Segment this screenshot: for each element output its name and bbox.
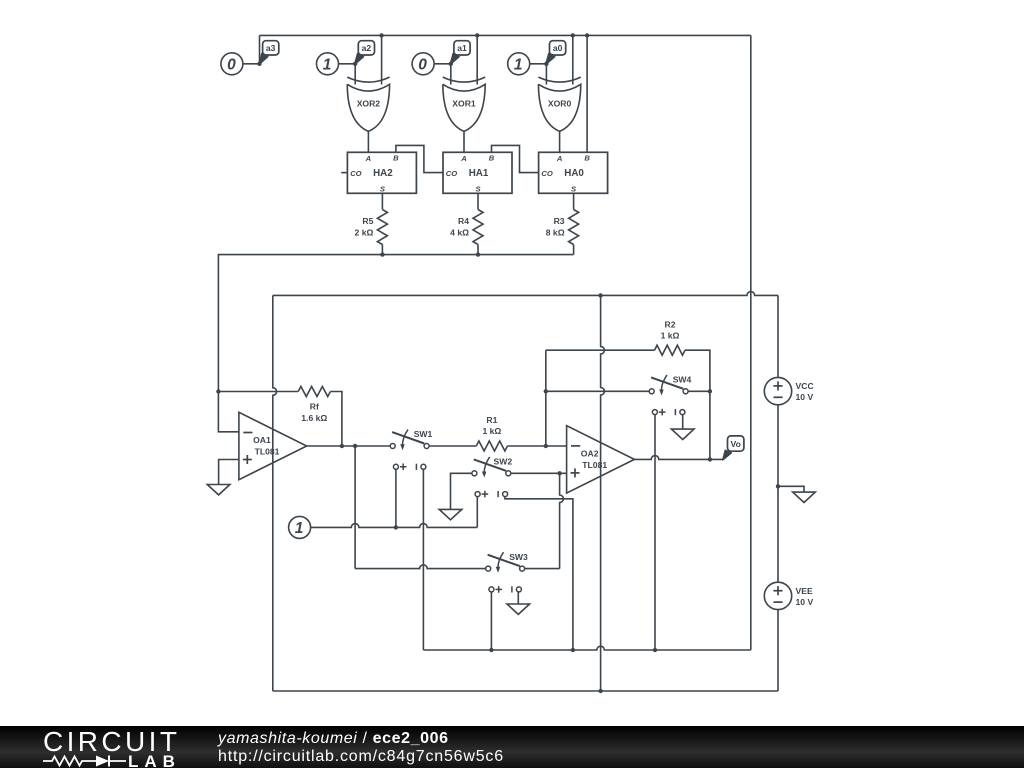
junction a2 <box>353 62 357 66</box>
junction bus-XOR0 <box>571 33 575 37</box>
xor gate XOR2 <box>347 77 389 131</box>
wire SW2 plus control <box>476 496 478 527</box>
wire HA2.CO stub <box>341 172 347 174</box>
wire logic-1 row <box>310 524 477 528</box>
wire OA1out to SW3 <box>355 446 486 569</box>
junction R4-bus <box>476 252 480 256</box>
junction R1-feedback <box>544 444 548 448</box>
switch SW1 <box>390 429 432 470</box>
svg-text:a0: a0 <box>553 43 563 53</box>
switch SW4 <box>649 375 691 416</box>
wire XOR2 output <box>367 131 369 152</box>
wire OA1 noninverting to ground <box>219 460 239 485</box>
junction SW1ctrl-1row <box>394 525 398 529</box>
junction Vo node <box>708 457 712 461</box>
switch SW3 <box>486 552 528 593</box>
svg-text:1: 1 <box>323 56 332 73</box>
wire SW1 plus control <box>395 469 397 527</box>
node a2 flag <box>355 41 375 65</box>
svg-text:TL081: TL081 <box>255 447 280 457</box>
resistor R1 1k <box>476 415 507 451</box>
svg-text:A: A <box>460 154 466 163</box>
svg-text:SW1: SW1 <box>414 429 433 439</box>
svg-text:B: B <box>489 154 495 163</box>
op-amp OA1 <box>239 412 307 479</box>
resistor R5 2 k&#937; <box>355 210 388 245</box>
wire OA1 output row <box>307 445 391 447</box>
ground SW2 left <box>439 509 462 519</box>
svg-text:CO: CO <box>446 169 457 178</box>
wire XOR0 input B drop <box>572 35 574 84</box>
wire HA1.B to HA0.CO <box>492 145 539 172</box>
half-adder HA2 <box>347 152 416 193</box>
svg-text:8 kΩ: 8 kΩ <box>546 228 565 238</box>
wire control bus <box>423 646 750 650</box>
wire R5 bottom lead <box>381 245 383 255</box>
node a3 flag <box>259 41 279 65</box>
ground supply midpoint <box>793 492 816 502</box>
node a0 flag <box>546 41 566 65</box>
junction R2-SW4 <box>708 389 712 393</box>
svg-text:R4: R4 <box>458 216 469 226</box>
wire a3 source lead <box>243 63 260 65</box>
junction a0 <box>544 62 548 66</box>
junction R5-bus <box>380 252 384 256</box>
source VEE 10V <box>764 582 813 609</box>
resistor R3 8 k&#937; <box>546 210 579 245</box>
junction OA1 inverting node <box>216 389 220 393</box>
svg-text:a1: a1 <box>457 43 467 53</box>
wire XOR0 input A drop <box>545 64 547 85</box>
source V_a2 value 1 <box>317 53 339 75</box>
wire HA0.B to bus <box>586 35 588 152</box>
ground OA1 noninverting <box>207 485 230 495</box>
svg-text:XOR0: XOR0 <box>548 99 572 109</box>
svg-text:SW4: SW4 <box>673 375 692 385</box>
wire Rf right lead <box>330 392 342 447</box>
svg-text:a3: a3 <box>266 43 276 53</box>
wire SW4 left lead <box>546 390 649 392</box>
junction bus-XOR2 <box>379 33 383 37</box>
wire R4 bottom lead <box>477 245 479 255</box>
svg-text:A: A <box>365 154 371 163</box>
junction OA2 noninverting <box>557 471 561 475</box>
svg-text:SW2: SW2 <box>493 457 512 467</box>
junction SW2ctrl-bus <box>571 648 575 652</box>
junction bus-XOR1 <box>475 33 479 37</box>
wire R1 to OA2 inverting <box>508 445 567 447</box>
svg-text:R1: R1 <box>486 415 497 425</box>
svg-text:Rf: Rf <box>310 402 319 412</box>
svg-text:CO: CO <box>541 169 552 178</box>
wire XOR0 output <box>559 131 561 152</box>
half-adder HA1 <box>443 152 512 193</box>
svg-text:1: 1 <box>295 520 304 537</box>
svg-text:R5: R5 <box>362 216 373 226</box>
wire SW2 to OA2 noninverting <box>511 472 567 474</box>
wire R4 top lead <box>477 193 479 209</box>
svg-text:B: B <box>393 154 399 163</box>
svg-text:SW3: SW3 <box>509 552 528 562</box>
wire supply bottom rail <box>273 690 778 692</box>
junction a3 <box>257 62 261 66</box>
svg-text:OA2: OA2 <box>581 448 599 458</box>
junction Rf-output <box>340 444 344 448</box>
junction SW4ctrl-bus <box>653 648 657 652</box>
ground SW3 control <box>507 604 530 614</box>
resistor R4 4 k&#937; <box>450 210 483 245</box>
wire a2 source lead <box>338 63 355 65</box>
svg-text:HA0: HA0 <box>564 168 584 179</box>
wire a3 top bus <box>260 35 751 650</box>
wire SW2 ground lead <box>451 473 472 509</box>
svg-text:10 V: 10 V <box>796 392 814 402</box>
wire R1 left lead <box>429 445 476 447</box>
wire a1 source lead <box>434 63 451 65</box>
resistor R2 1k <box>655 320 686 356</box>
xor gate XOR0 <box>538 77 580 131</box>
wire OA2 power pins <box>601 295 605 691</box>
wire SW3 to OA2 noninverting <box>524 473 563 568</box>
wire SW2 minus control <box>505 496 573 650</box>
wire XOR2 input A drop <box>354 64 356 85</box>
svg-text:a2: a2 <box>362 43 372 53</box>
wire VEE top lead <box>777 486 779 582</box>
xor gate XOR1 <box>443 77 485 131</box>
wire R3 bottom lead <box>573 245 575 255</box>
svg-text:R3: R3 <box>554 216 565 226</box>
wire SW3 minus control to ground <box>517 592 519 604</box>
svg-text:R2: R2 <box>665 320 676 330</box>
wire OA1 power pins <box>273 295 277 691</box>
junction feedback-SW4 <box>544 389 548 393</box>
svg-text:S: S <box>475 185 480 194</box>
wire R2 left lead <box>546 349 655 351</box>
svg-text:B: B <box>584 154 590 163</box>
wire XOR1 input A drop <box>450 64 452 85</box>
svg-text:S: S <box>571 185 576 194</box>
wire SW4 right lead <box>688 390 710 392</box>
source V9 value 1 <box>289 516 311 538</box>
svg-text:4 kΩ: 4 kΩ <box>450 228 469 238</box>
wire R5 top lead <box>381 193 383 209</box>
svg-text:1 kΩ: 1 kΩ <box>482 426 501 436</box>
wire VCC bottom lead <box>777 405 779 487</box>
wire OA2 output <box>634 456 723 460</box>
wire XOR1 input B drop <box>476 35 478 84</box>
svg-text:10 V: 10 V <box>796 597 814 607</box>
junction bus-HA0.B <box>585 33 589 37</box>
junction SW3ctrl-bus <box>489 648 493 652</box>
svg-text:2 kΩ: 2 kΩ <box>355 228 374 238</box>
wire Rf left lead <box>218 391 298 393</box>
wire feedback column <box>545 350 547 446</box>
source V_a0 value 1 <box>508 53 530 75</box>
wire R3 top lead <box>573 193 575 209</box>
junction supply midpoint <box>776 484 780 488</box>
wire SW1 minus control <box>422 469 424 650</box>
wire SW4 minus control to ground <box>682 414 684 429</box>
node a1 flag <box>450 41 470 65</box>
switch SW2 <box>472 457 512 498</box>
junction OA2 Vminus <box>598 689 602 693</box>
svg-text:1: 1 <box>514 56 523 73</box>
junction a1 <box>449 62 453 66</box>
source VCC 10V <box>764 377 813 404</box>
svg-text:0: 0 <box>418 56 427 73</box>
junction OA2 Vplus <box>598 293 602 297</box>
wire supply ground lead <box>778 486 804 492</box>
svg-text:OA1: OA1 <box>253 435 271 445</box>
wire a0 source lead <box>529 63 546 65</box>
wire XOR1 output <box>463 131 465 152</box>
svg-text:1.6 kΩ: 1.6 kΩ <box>301 413 327 423</box>
svg-text:HA2: HA2 <box>373 168 393 179</box>
source V_a3 value 0 <box>221 53 243 75</box>
svg-text:HA1: HA1 <box>469 168 489 179</box>
wire VCC top lead <box>777 295 779 377</box>
wire SW4 plus control <box>654 414 656 650</box>
wire a3 riser <box>259 35 261 63</box>
junction OA1 output a <box>353 444 357 448</box>
ground SW4 control <box>671 429 694 439</box>
wire HA2.B to HA1.CO <box>396 145 443 172</box>
resistor Rf 1.6k <box>298 387 330 423</box>
wire VEE bottom lead <box>777 610 779 691</box>
svg-text:0: 0 <box>227 56 236 73</box>
source V_a1 value 0 <box>412 53 434 75</box>
svg-text:VCC: VCC <box>796 381 814 391</box>
svg-text:S: S <box>380 185 385 194</box>
wire SW3 plus control <box>490 592 492 650</box>
svg-text:CO: CO <box>350 169 361 178</box>
wire XOR2 input B drop <box>381 35 383 84</box>
svg-text:A: A <box>556 154 562 163</box>
wire summing bus <box>218 255 573 432</box>
half-adder HA0 <box>539 152 608 193</box>
svg-text:XOR1: XOR1 <box>452 99 476 109</box>
svg-text:1 kΩ: 1 kΩ <box>661 331 680 341</box>
wire R2 right lead <box>685 350 710 459</box>
svg-text:Vo: Vo <box>731 439 741 449</box>
svg-text:VEE: VEE <box>796 586 813 596</box>
node Vo flag <box>723 436 744 460</box>
wire supply top rail <box>273 292 778 296</box>
op-amp OA2 <box>567 426 635 493</box>
CircuitLab logo <box>43 730 183 768</box>
svg-text:XOR2: XOR2 <box>357 99 381 109</box>
svg-text:TL081: TL081 <box>582 460 607 470</box>
